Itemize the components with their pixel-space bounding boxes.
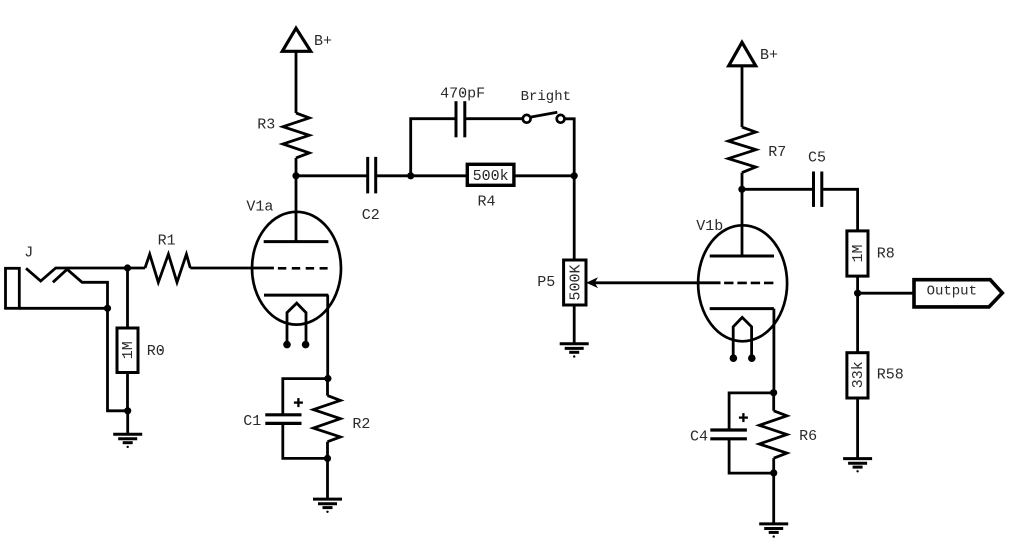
node E xyxy=(407,172,414,179)
switch Bright contact 2 xyxy=(557,115,565,123)
wire 470pF to switch xyxy=(465,117,523,120)
svg-text:V1a: V1a xyxy=(246,199,273,216)
svg-text:500k: 500k xyxy=(473,168,509,185)
wire node H to R58 xyxy=(856,293,859,353)
node B sleeve junction xyxy=(104,305,111,312)
switch Bright lever xyxy=(531,112,557,117)
jack shunt contact xyxy=(53,269,108,308)
wire P5 to ground GND2 xyxy=(573,305,576,344)
svg-text:R4: R4 xyxy=(478,194,496,211)
wire C1 to node H2 xyxy=(283,423,328,458)
wire node J2 to ground GND4 xyxy=(772,473,775,524)
wire node A to R1 xyxy=(128,267,146,270)
wire jack sleeve xyxy=(19,307,107,310)
dots of zero glyphs in 500k xyxy=(485,174,496,176)
resistor R6 xyxy=(759,411,787,458)
V1a heater pin dots xyxy=(283,341,309,349)
wire R6 to node J2 xyxy=(772,458,775,473)
wire node B down to ground node C xyxy=(108,308,128,411)
V1b grid (dashed) xyxy=(724,282,774,285)
P5 wiper arrowhead xyxy=(586,277,598,288)
resistor R3 xyxy=(283,113,309,158)
svg-text:R2: R2 xyxy=(352,416,370,433)
value 1M of R0 (rotated) xyxy=(120,341,137,359)
resistor R0 box xyxy=(117,328,138,373)
V1a grid (dashed) xyxy=(278,267,328,270)
wire R2 to node H2 xyxy=(326,442,329,459)
svg-text:R8: R8 xyxy=(877,246,895,263)
wire R0 to node C xyxy=(126,373,129,411)
svg-text:R58: R58 xyxy=(877,367,904,384)
node A tip junction xyxy=(124,264,131,271)
wire C5 to R8 xyxy=(822,189,858,231)
V1a cathode lead xyxy=(326,295,329,378)
V1b plate xyxy=(710,189,774,256)
wire node I to R6 xyxy=(772,393,775,411)
svg-text:J: J xyxy=(24,245,33,262)
wire R1 to V1a grid xyxy=(190,267,274,270)
wire R8 to node H xyxy=(856,276,859,293)
capacitor C1 electrolytic xyxy=(265,415,301,424)
svg-text:C2: C2 xyxy=(362,207,380,224)
wire C4 to node J2 xyxy=(729,439,774,473)
svg-text:C1: C1 xyxy=(243,413,261,430)
node H2 R2 bottom junction xyxy=(324,455,331,462)
dot of zero glyph in 470pF xyxy=(462,92,464,94)
ground GND3 xyxy=(313,499,342,513)
jack tip contact and wire to node A xyxy=(26,268,128,281)
node F xyxy=(571,172,578,179)
svg-text:V1b: V1b xyxy=(696,218,723,235)
svg-text:R6: R6 xyxy=(799,428,817,445)
capacitor C2 xyxy=(368,157,376,194)
svg-text:P5: P5 xyxy=(537,274,555,291)
svg-text:33k: 33k xyxy=(850,361,867,388)
wire switch to node F xyxy=(565,119,574,176)
node I V1b cathode junction xyxy=(770,389,777,396)
V1b heater pin dots xyxy=(730,354,756,362)
wire node D to C2 xyxy=(296,174,367,177)
wire node C to ground GND1 xyxy=(126,411,129,434)
svg-text:500K: 500K xyxy=(568,264,585,300)
svg-text:Output: Output xyxy=(927,284,977,300)
V1b cathode lead xyxy=(773,309,776,393)
ground GND4 xyxy=(759,524,788,538)
svg-text:B+: B+ xyxy=(760,47,778,64)
ground GND5 xyxy=(843,459,872,473)
V1a heater xyxy=(287,303,306,344)
wire node G to R2 xyxy=(326,379,329,396)
ground GND1 xyxy=(113,434,142,448)
potentiometer P5 box xyxy=(564,260,586,305)
value 1M of R8 (rotated) xyxy=(850,244,867,262)
wire node P to C5 xyxy=(742,188,814,191)
node J2 R6 bottom junction xyxy=(770,469,777,476)
resistor R8 box xyxy=(847,231,868,276)
svg-text:1M: 1M xyxy=(850,244,867,262)
tube V1b envelope xyxy=(698,225,787,341)
wire R7 to node P xyxy=(741,173,744,190)
wire C2 to node E xyxy=(377,174,411,177)
wire node H2 to ground GND3 xyxy=(326,458,329,499)
svg-text:R0: R0 xyxy=(147,343,165,360)
wire node E to R4 xyxy=(411,174,468,177)
svg-text:R7: R7 xyxy=(768,144,786,161)
wire R3 to node D xyxy=(295,158,298,176)
node D plate node xyxy=(292,172,299,179)
ground GND2 xyxy=(560,344,589,358)
value 33k of R58 (rotated) xyxy=(850,361,867,388)
svg-text:C5: C5 xyxy=(808,150,826,167)
connector J jack body xyxy=(6,268,20,308)
wire node H to Output flag xyxy=(858,292,916,295)
node C ground junction xyxy=(124,407,131,414)
resistor R1 xyxy=(145,254,190,282)
wire wiper to V1b grid xyxy=(594,281,721,284)
wire R4 to node F xyxy=(514,174,574,177)
resistor R2 xyxy=(313,396,340,442)
node P V1b plate node xyxy=(738,186,745,193)
V1b cathode xyxy=(710,307,774,310)
tube V1a envelope xyxy=(252,212,341,325)
C4 polarity plus sign xyxy=(739,413,748,422)
wire node F to P5 xyxy=(573,176,576,260)
svg-text:C4: C4 xyxy=(690,429,708,446)
resistor R7 xyxy=(728,127,756,173)
svg-text:470pF: 470pF xyxy=(440,86,485,103)
V1a plate xyxy=(264,176,329,242)
wire node E up to 470pF xyxy=(411,119,456,176)
svg-text:R1: R1 xyxy=(158,232,176,249)
node H output junction xyxy=(854,290,861,297)
dot of zero glyph in R0 xyxy=(160,349,162,351)
power B+ right xyxy=(729,42,756,66)
C1 polarity plus sign xyxy=(294,398,303,407)
resistor R58 box xyxy=(847,353,868,398)
power B+ left xyxy=(282,28,310,51)
wire B+ to R7 xyxy=(741,66,744,127)
svg-text:1M: 1M xyxy=(120,341,137,359)
node G V1a cathode junction xyxy=(324,375,331,382)
capacitor C4 electrolytic xyxy=(710,430,747,439)
value 500K of P5 (rotated) xyxy=(568,264,585,300)
svg-text:Bright: Bright xyxy=(521,89,571,105)
resistor R4 box xyxy=(467,164,514,185)
wire B+ to R3 xyxy=(295,51,298,113)
wire node I to C4 branch xyxy=(729,393,774,430)
switch Bright contact 1 xyxy=(523,115,531,123)
capacitor C5 xyxy=(814,172,822,207)
svg-text:B+: B+ xyxy=(314,33,332,50)
wire node G to C1 branch xyxy=(283,379,328,415)
net flag Output xyxy=(914,280,1002,307)
capacitor 470pF xyxy=(456,101,465,137)
wire R58 to ground GND5 xyxy=(856,397,859,459)
V1b heater xyxy=(733,317,751,358)
V1a cathode xyxy=(264,294,328,297)
svg-text:R3: R3 xyxy=(257,116,275,133)
wire node A to R0 xyxy=(126,268,129,328)
